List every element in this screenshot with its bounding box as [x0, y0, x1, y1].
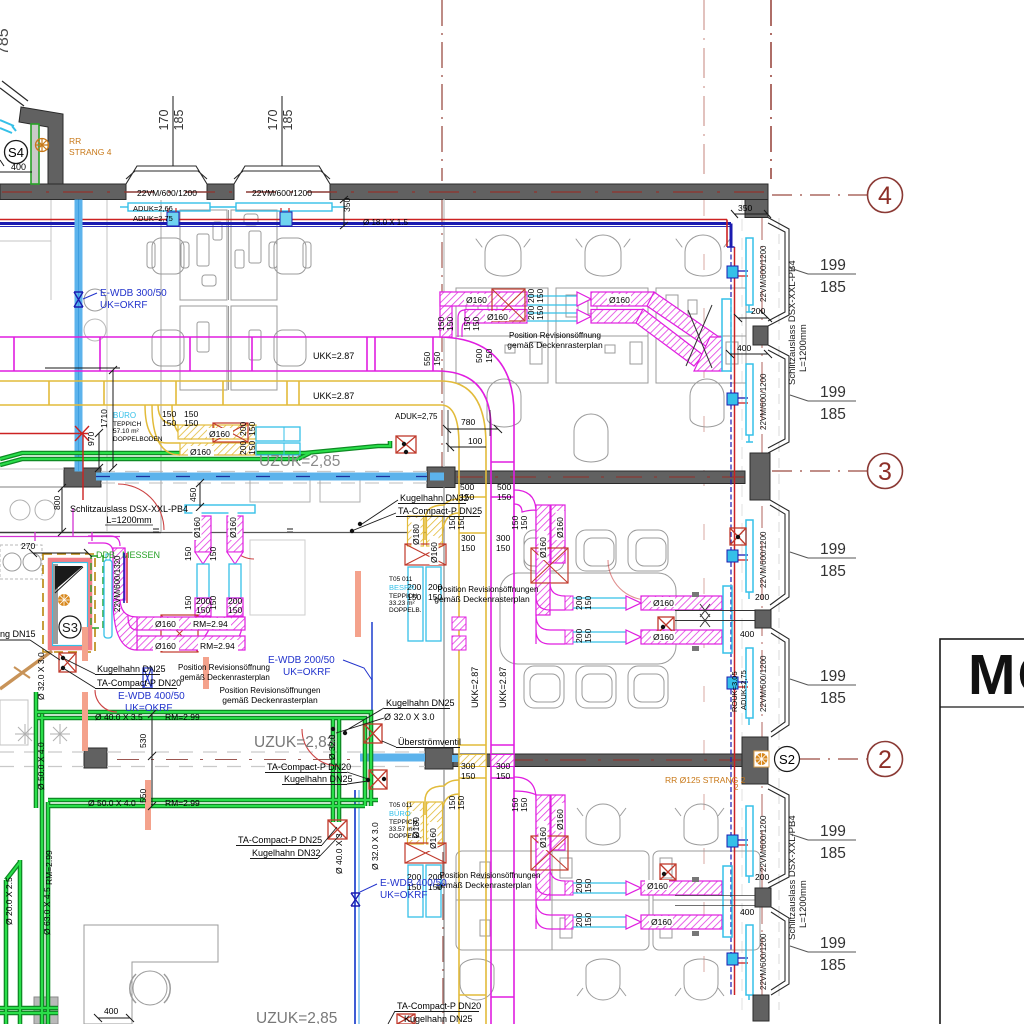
yellow branch middle room: [405, 499, 459, 641]
svg-text:57.10 m²: 57.10 m²: [113, 428, 139, 435]
svg-text:MESSEN: MESSEN: [122, 550, 160, 560]
svg-text:gemäß Deckenrasterplan: gemäß Deckenrasterplan: [436, 880, 532, 890]
svg-text:22VM/600/1200: 22VM/600/1200: [137, 188, 197, 198]
yellow vertical trunk: [459, 445, 486, 1024]
svg-text:RM=2.99: RM=2.99: [165, 798, 200, 808]
svg-text:TA-Compact-P DN25: TA-Compact-P DN25: [398, 506, 482, 516]
svg-text:Kugelhahn DN25: Kugelhahn DN25: [97, 664, 166, 674]
valve on navy pipe: [351, 893, 360, 906]
S3 room assembly: [43, 554, 361, 830]
magenta thin plumbing lines near S3: [0, 508, 120, 541]
svg-text:L=1200mm: L=1200mm: [106, 515, 151, 525]
svg-text:400: 400: [11, 162, 26, 172]
heating pipes along top wall: red + navy pair: [0, 219, 727, 221]
magenta branch top room MB1: [440, 289, 731, 371]
svg-text:150: 150: [183, 596, 193, 610]
svg-text:33.23 m²: 33.23 m²: [389, 600, 415, 607]
svg-text:Ø 40.0 X 3.5: Ø 40.0 X 3.5: [95, 712, 143, 722]
yellow branch bottom room: [405, 780, 459, 917]
small desks right of S3: [250, 480, 310, 502]
svg-text:785: 785: [0, 28, 12, 55]
svg-text:Schlitzauslass DSX-XXL-PB4: Schlitzauslass DSX-XXL-PB4: [70, 504, 188, 514]
svg-text:UZUK=2,85: UZUK=2,85: [256, 1010, 337, 1024]
svg-text:Ø160: Ø160: [209, 429, 230, 439]
MB1 labels: [464, 294, 488, 304]
corridor A blue pipe: [96, 473, 427, 481]
svg-text:Ø160: Ø160: [555, 809, 565, 830]
svg-text:Ø 32.0 X 3.0: Ø 32.0 X 3.0: [384, 712, 435, 722]
svg-text:150: 150: [519, 516, 529, 530]
yellow trunk hatch at wall crossing: [459, 755, 486, 767]
svg-text:UK=OKRF: UK=OKRF: [380, 890, 428, 901]
top window 2: [234, 166, 330, 184]
svg-text:185: 185: [820, 690, 846, 707]
svg-text:150: 150: [196, 605, 210, 615]
svg-text:UKK=2.87: UKK=2.87: [498, 667, 508, 708]
svg-text:450: 450: [188, 488, 198, 502]
svg-text:STRANG 4: STRANG 4: [69, 147, 112, 157]
svg-text:199: 199: [820, 257, 846, 274]
grid line to circle 4: [772, 194, 867, 196]
svg-text:199: 199: [820, 823, 846, 840]
yellow branch labels: [207, 428, 233, 438]
svg-text:150: 150: [535, 306, 545, 320]
svg-text:150: 150: [208, 547, 218, 561]
valve on blue pipe: [74, 292, 83, 307]
right wall block w3/w4: [755, 610, 771, 628]
svg-text:22VM/600/1200: 22VM/600/1200: [759, 373, 768, 430]
svg-text:TA-Compact-P DN25: TA-Compact-P DN25: [238, 835, 322, 845]
green vertical strip top-left: [31, 124, 39, 184]
svg-text:500: 500: [474, 349, 484, 363]
svg-text:270: 270: [21, 541, 35, 551]
svg-text:300: 300: [461, 761, 475, 771]
svg-text:Ø160: Ø160: [538, 827, 548, 848]
svg-text:150: 150: [456, 796, 466, 810]
svg-text:L=1200mm: L=1200mm: [798, 324, 809, 372]
svg-text:ADUK=2,75: ADUK=2,75: [133, 214, 173, 223]
top-left office desks: [147, 210, 311, 300]
svg-text:500: 500: [460, 482, 474, 492]
svg-text:350: 350: [738, 203, 752, 213]
svg-text:Ø160: Ø160: [228, 517, 238, 538]
top-mid room desk clusters: [456, 288, 746, 383]
connector boxes on risers: [727, 266, 738, 965]
middle meeting room table: [500, 530, 676, 708]
top-mid chairs below: [487, 379, 724, 462]
svg-text:UKK=2.87: UKK=2.87: [313, 351, 354, 361]
leader dots: [61, 442, 740, 876]
svg-text:ROUK=3.05: ROUK=3.05: [730, 671, 739, 712]
right wall S2 block: [742, 737, 768, 784]
svg-text:UK=OKRF: UK=OKRF: [283, 667, 331, 678]
svg-text:100: 100: [468, 436, 482, 446]
MB3 labels: [539, 821, 548, 850]
right wall corner block: [745, 200, 768, 218]
svg-text:UKK=2.87: UKK=2.87: [313, 391, 354, 401]
svg-text:DOPPELB.: DOPPELB.: [389, 833, 422, 840]
svg-text:Ø160: Ø160: [647, 881, 668, 891]
svg-text:TEPPICH: TEPPICH: [389, 819, 417, 826]
svg-text:T05 011: T05 011: [389, 802, 413, 809]
svg-text:gemäß Deckenrasterplan: gemäß Deckenrasterplan: [507, 340, 603, 350]
S3 top wall: [0, 532, 161, 534]
svg-text:Ø160: Ø160: [653, 598, 674, 608]
top-mid chairs row above desks: [476, 235, 730, 276]
svg-text:150: 150: [583, 879, 593, 893]
svg-text:150: 150: [496, 543, 510, 553]
svg-text:Ø160: Ø160: [609, 295, 630, 305]
svg-text:185: 185: [820, 406, 846, 423]
svg-text:Ø 32.0 X 3.0: Ø 32.0 X 3.0: [36, 652, 46, 700]
svg-text:150: 150: [471, 317, 481, 331]
riser stubs to window slots: [735, 271, 748, 963]
svg-text:Ø160: Ø160: [155, 619, 176, 629]
svg-text:150: 150: [535, 289, 545, 303]
right wall grid3 block: [750, 453, 770, 500]
svg-text:Ø160: Ø160: [155, 641, 176, 651]
tan diagonal near S3: [0, 651, 52, 689]
svg-text:Kugelhahn DN25: Kugelhahn DN25: [404, 1014, 473, 1024]
cyan duct piece top-left corner: [0, 120, 16, 133]
svg-text:185: 185: [820, 563, 846, 580]
svg-text:Ø160: Ø160: [487, 312, 508, 322]
magenta main elbow to vertical trunk: [437, 337, 514, 428]
yellow main duct horizontal: [0, 381, 441, 405]
magenta branch bottom room MB3: [514, 777, 770, 937]
svg-text:185: 185: [172, 110, 186, 131]
svg-text:Position Revisionsöffnung: Position Revisionsöffnung: [509, 331, 601, 340]
svg-text:UK=OKRF: UK=OKRF: [100, 300, 148, 311]
svg-text:E-WDB 400/50: E-WDB 400/50: [118, 691, 185, 702]
svg-text:UKK=2.87: UKK=2.87: [470, 667, 480, 708]
S4 bubble: [5, 141, 28, 164]
svg-text:RM=2.94: RM=2.94: [193, 619, 228, 629]
svg-text:RM=2.99: RM=2.99: [44, 850, 54, 885]
WALLS: [0, 81, 789, 1024]
svg-text:Position Revisionsöffnungen: Position Revisionsöffnungen: [220, 686, 321, 695]
chairs top-left room upper: [84, 289, 106, 311]
S3 magenta branch MB4: [88, 505, 466, 652]
svg-text:Position Revisionsöffnung: Position Revisionsöffnung: [178, 663, 270, 672]
svg-text:150: 150: [484, 349, 494, 363]
svg-text:150: 150: [456, 516, 466, 530]
svg-text:199: 199: [820, 384, 846, 401]
magenta vertical trunk: [491, 414, 514, 1024]
svg-text:150: 150: [583, 629, 593, 643]
grid bubble 4: [868, 178, 903, 213]
svg-text:L=1200mm: L=1200mm: [798, 880, 809, 928]
svg-text:22VM/600/1320: 22VM/600/1320: [113, 555, 122, 612]
svg-text:E-WDB 400/50: E-WDB 400/50: [380, 878, 447, 889]
svg-text:33.57 m²: 33.57 m²: [389, 826, 415, 833]
svg-text:150: 150: [496, 771, 510, 781]
navy pipe vertical bottom-center: [371, 622, 373, 726]
svg-text:gemäß Deckenrasterplan: gemäß Deckenrasterplan: [222, 695, 318, 705]
svg-text:400: 400: [740, 629, 754, 639]
svg-text:1710: 1710: [99, 409, 109, 428]
svg-text:185: 185: [820, 957, 846, 974]
svg-text:Ø180: Ø180: [411, 524, 421, 545]
bottom-left gray block: [34, 997, 58, 1024]
svg-text:T05 011: T05 011: [389, 576, 413, 583]
svg-text:Ø160: Ø160: [653, 632, 674, 642]
svg-text:Überströmventil: Überströmventil: [398, 737, 461, 747]
riser pipes along right wall: red + navy vertical: [726, 220, 728, 248]
svg-text:300: 300: [496, 533, 510, 543]
left small room furniture: [3, 553, 21, 571]
svg-text:E-WDB 200/50: E-WDB 200/50: [268, 655, 335, 666]
svg-text:500: 500: [497, 482, 511, 492]
svg-text:Ø160: Ø160: [466, 295, 487, 305]
svg-text:Ø160: Ø160: [192, 517, 202, 538]
svg-text:300: 300: [461, 533, 475, 543]
room divider line x443: [443, 199, 445, 467]
svg-text:Ø160: Ø160: [429, 542, 439, 563]
svg-text:Ø 50.0 X 4.0: Ø 50.0 X 4.0: [88, 798, 136, 808]
svg-text:Position Revisionsöffnungen: Position Revisionsöffnungen: [440, 871, 541, 880]
svg-text:22VM/600/1200: 22VM/600/1200: [759, 245, 768, 302]
svg-text:550: 550: [422, 352, 432, 366]
svg-text:Kugelhahn DN32: Kugelhahn DN32: [400, 493, 469, 503]
interior corridor wall A: [455, 471, 745, 484]
svg-text:185: 185: [281, 110, 295, 131]
top window 1: [126, 166, 207, 184]
corridor B blue pipe: [360, 754, 425, 762]
bottom-left L desk: [84, 925, 218, 1024]
MB2 labels: [539, 531, 548, 560]
svg-text:Schlitzauslass DSX-XXL-PB4: Schlitzauslass DSX-XXL-PB4: [787, 815, 798, 940]
yellow branch top room (office): [145, 405, 300, 455]
svg-text:RR: RR: [69, 136, 81, 146]
svg-text:ADUK=2,75: ADUK=2,75: [739, 670, 748, 710]
svg-text:BESPR.: BESPR.: [389, 583, 417, 592]
room info blocks tiny: [113, 411, 422, 840]
bottom room tables: [456, 851, 760, 950]
svg-text:BÜRO: BÜRO: [113, 411, 136, 420]
S2 junction: [754, 751, 769, 767]
svg-text:Ø 32.0: Ø 32.0: [327, 734, 337, 760]
svg-text:Schlitzauslass DSX-XXL-PB4: Schlitzauslass DSX-XXL-PB4: [787, 260, 798, 385]
DUCTS: [0, 120, 770, 1024]
svg-text:Ø160: Ø160: [651, 917, 672, 927]
main vertical CW pipe left (light blue): [75, 200, 83, 472]
svg-text:Ø 63.0 X 4.5: Ø 63.0 X 4.5: [42, 887, 52, 935]
corridor A dashed opening: [101, 472, 427, 484]
svg-text:RM=2.94: RM=2.94: [200, 641, 235, 651]
svg-text:E-WDB 300/50: E-WDB 300/50: [100, 288, 167, 299]
svg-text:2: 2: [878, 746, 892, 774]
FURNITURE: [0, 155, 760, 1024]
svg-text:150: 150: [184, 418, 198, 428]
svg-text:150: 150: [461, 771, 475, 781]
svg-text:S2: S2: [779, 752, 795, 767]
top-left window outline: [0, 81, 28, 106]
svg-text:22VM/600/1200: 22VM/600/1200: [759, 655, 768, 712]
svg-text:150: 150: [497, 492, 511, 502]
svg-text:TEPPICH: TEPPICH: [113, 421, 141, 428]
svg-text:TA-Compact-P DN20: TA-Compact-P DN20: [97, 678, 181, 688]
bottom room chairs: [460, 804, 724, 1000]
svg-text:400: 400: [104, 1006, 118, 1016]
magenta trunk hatch at wall crossing: [491, 755, 514, 767]
svg-text:185: 185: [820, 279, 846, 296]
yellow main elbow down: [441, 381, 486, 445]
right wall block w1/w2: [753, 326, 768, 345]
sunburst top-left: [36, 139, 49, 152]
svg-text:22VM/600/1200: 22VM/600/1200: [759, 531, 768, 588]
svg-text:Ø160: Ø160: [190, 447, 211, 457]
svg-text:UZUK=2,83: UZUK=2,83: [254, 734, 335, 751]
svg-text:150: 150: [583, 913, 593, 927]
interior corridor wall B: [452, 754, 742, 767]
svg-text:TEPPICH: TEPPICH: [389, 593, 417, 600]
svg-text:150: 150: [461, 543, 475, 553]
svg-text:Kugelhahn DN32: Kugelhahn DN32: [252, 848, 321, 858]
svg-text:Kugelhahn DN25: Kugelhahn DN25: [284, 774, 353, 784]
svg-text:TA-Compact-P DN20: TA-Compact-P DN20: [397, 1001, 481, 1011]
svg-text:199: 199: [820, 541, 846, 558]
top wall slot diffusers: [120, 203, 345, 211]
chair right: [274, 238, 306, 274]
GRIDLINES: [442, 0, 903, 1024]
svg-text:170: 170: [266, 110, 280, 131]
window dims 170/185: [172, 96, 174, 166]
svg-text:2: 2: [734, 783, 739, 792]
svg-text:Ø 18.0 X 1.5: Ø 18.0 X 1.5: [363, 218, 408, 227]
svg-text:ADUK=2,66: ADUK=2,66: [133, 204, 173, 213]
svg-text:150: 150: [247, 422, 257, 436]
svg-text:DOPPELBODEN: DOPPELBODEN: [113, 436, 163, 443]
magenta branch middle room MB2: [514, 490, 770, 653]
svg-text:150: 150: [583, 596, 593, 610]
svg-text:3: 3: [878, 458, 892, 486]
wall centerline dashes top: [2, 191, 766, 193]
svg-text:Ø 32.0 X 3.0: Ø 32.0 X 3.0: [370, 822, 380, 870]
199/185 fraction sets: [790, 257, 856, 974]
valve X-boxes (red): [59, 436, 746, 1024]
svg-text:150: 150: [432, 352, 442, 366]
door swing arcs red: [118, 484, 164, 530]
GREEN pipe network: [0, 441, 390, 1024]
svg-text:TA-Compact-P DN20: TA-Compact-P DN20: [267, 762, 351, 772]
svg-text:800: 800: [52, 496, 62, 510]
svg-text:S4: S4: [8, 145, 24, 160]
partitions top-left room: [50, 200, 52, 300]
corridor B dashed opening: [0, 752, 425, 767]
grid line to circle 2: [800, 758, 867, 760]
svg-text:22VM/600/1200: 22VM/600/1200: [252, 188, 312, 198]
title block: [940, 639, 1024, 1024]
red line pieces top-left: [0, 426, 89, 500]
svg-text:199: 199: [820, 935, 846, 952]
svg-text:199: 199: [820, 668, 846, 685]
svg-text:150: 150: [247, 441, 257, 455]
top exterior wall segments: [0, 184, 126, 200]
svg-text:530: 530: [138, 734, 148, 748]
right windows trapezoids: [768, 218, 789, 996]
svg-text:550: 550: [138, 789, 148, 803]
svg-text:Ø160: Ø160: [555, 517, 565, 538]
svg-text:DOPPELB.: DOPPELB.: [389, 607, 422, 614]
svg-text:ng DN15: ng DN15: [0, 629, 36, 639]
svg-text:Ø 20.0 X 2.5: Ø 20.0 X 2.5: [4, 877, 14, 925]
svg-text:150: 150: [162, 418, 176, 428]
svg-text:400: 400: [740, 907, 754, 917]
svg-text:150: 150: [445, 317, 455, 331]
svg-text:BÜRO: BÜRO: [389, 809, 411, 818]
grid bubble 2: [868, 742, 903, 777]
svg-text:400: 400: [737, 343, 751, 353]
svg-text:Position Revisionsöffnungen: Position Revisionsöffnungen: [438, 585, 539, 594]
svg-text:170: 170: [157, 110, 171, 131]
svg-text:ADUK=2,75: ADUK=2,75: [395, 412, 438, 421]
right margin: window texts and fractions: [759, 245, 768, 990]
svg-text:780: 780: [461, 417, 475, 427]
magenta main duct horizontal: [0, 337, 437, 371]
svg-text:200: 200: [751, 306, 765, 316]
svg-text:22VM/600/1200: 22VM/600/1200: [759, 933, 768, 990]
svg-text:970: 970: [86, 432, 96, 446]
svg-text:MO: MO: [968, 643, 1024, 707]
top-left second desk row lower: [152, 306, 306, 390]
svg-text:150: 150: [228, 605, 242, 615]
svg-text:UZUK=2,85: UZUK=2,85: [259, 453, 340, 470]
svg-text:Kugelhahn DN25: Kugelhahn DN25: [386, 698, 455, 708]
svg-text:300: 300: [496, 761, 510, 771]
grid bubble 3: [868, 454, 903, 489]
right wall bottom block: [753, 995, 769, 1021]
top-left diagonal wall: [19, 107, 63, 184]
svg-text:150: 150: [519, 798, 529, 812]
chair left: [152, 238, 184, 274]
svg-text:gemäß Deckenrasterplan: gemäß Deckenrasterplan: [180, 673, 270, 682]
svg-text:22VM/600/1200: 22VM/600/1200: [759, 815, 768, 872]
svg-text:Ø160: Ø160: [538, 537, 548, 558]
svg-text:150: 150: [183, 547, 193, 561]
svg-text:gemäß Deckenrasterplan: gemäß Deckenrasterplan: [434, 594, 530, 604]
svg-text:RM=2.99: RM=2.99: [165, 712, 200, 722]
svg-text:185: 185: [820, 845, 846, 862]
right wall slot diffusers: [746, 238, 753, 1000]
svg-text:S3: S3: [62, 620, 78, 635]
grid line to circle 3: [772, 470, 867, 472]
right wall block w5/w6: [755, 888, 771, 907]
PIPES: [0, 200, 748, 1024]
svg-text:Ø160: Ø160: [428, 828, 438, 849]
svg-text:Ø 50.0 X 4.0: Ø 50.0 X 4.0: [36, 742, 46, 790]
svg-text:4: 4: [878, 182, 892, 210]
